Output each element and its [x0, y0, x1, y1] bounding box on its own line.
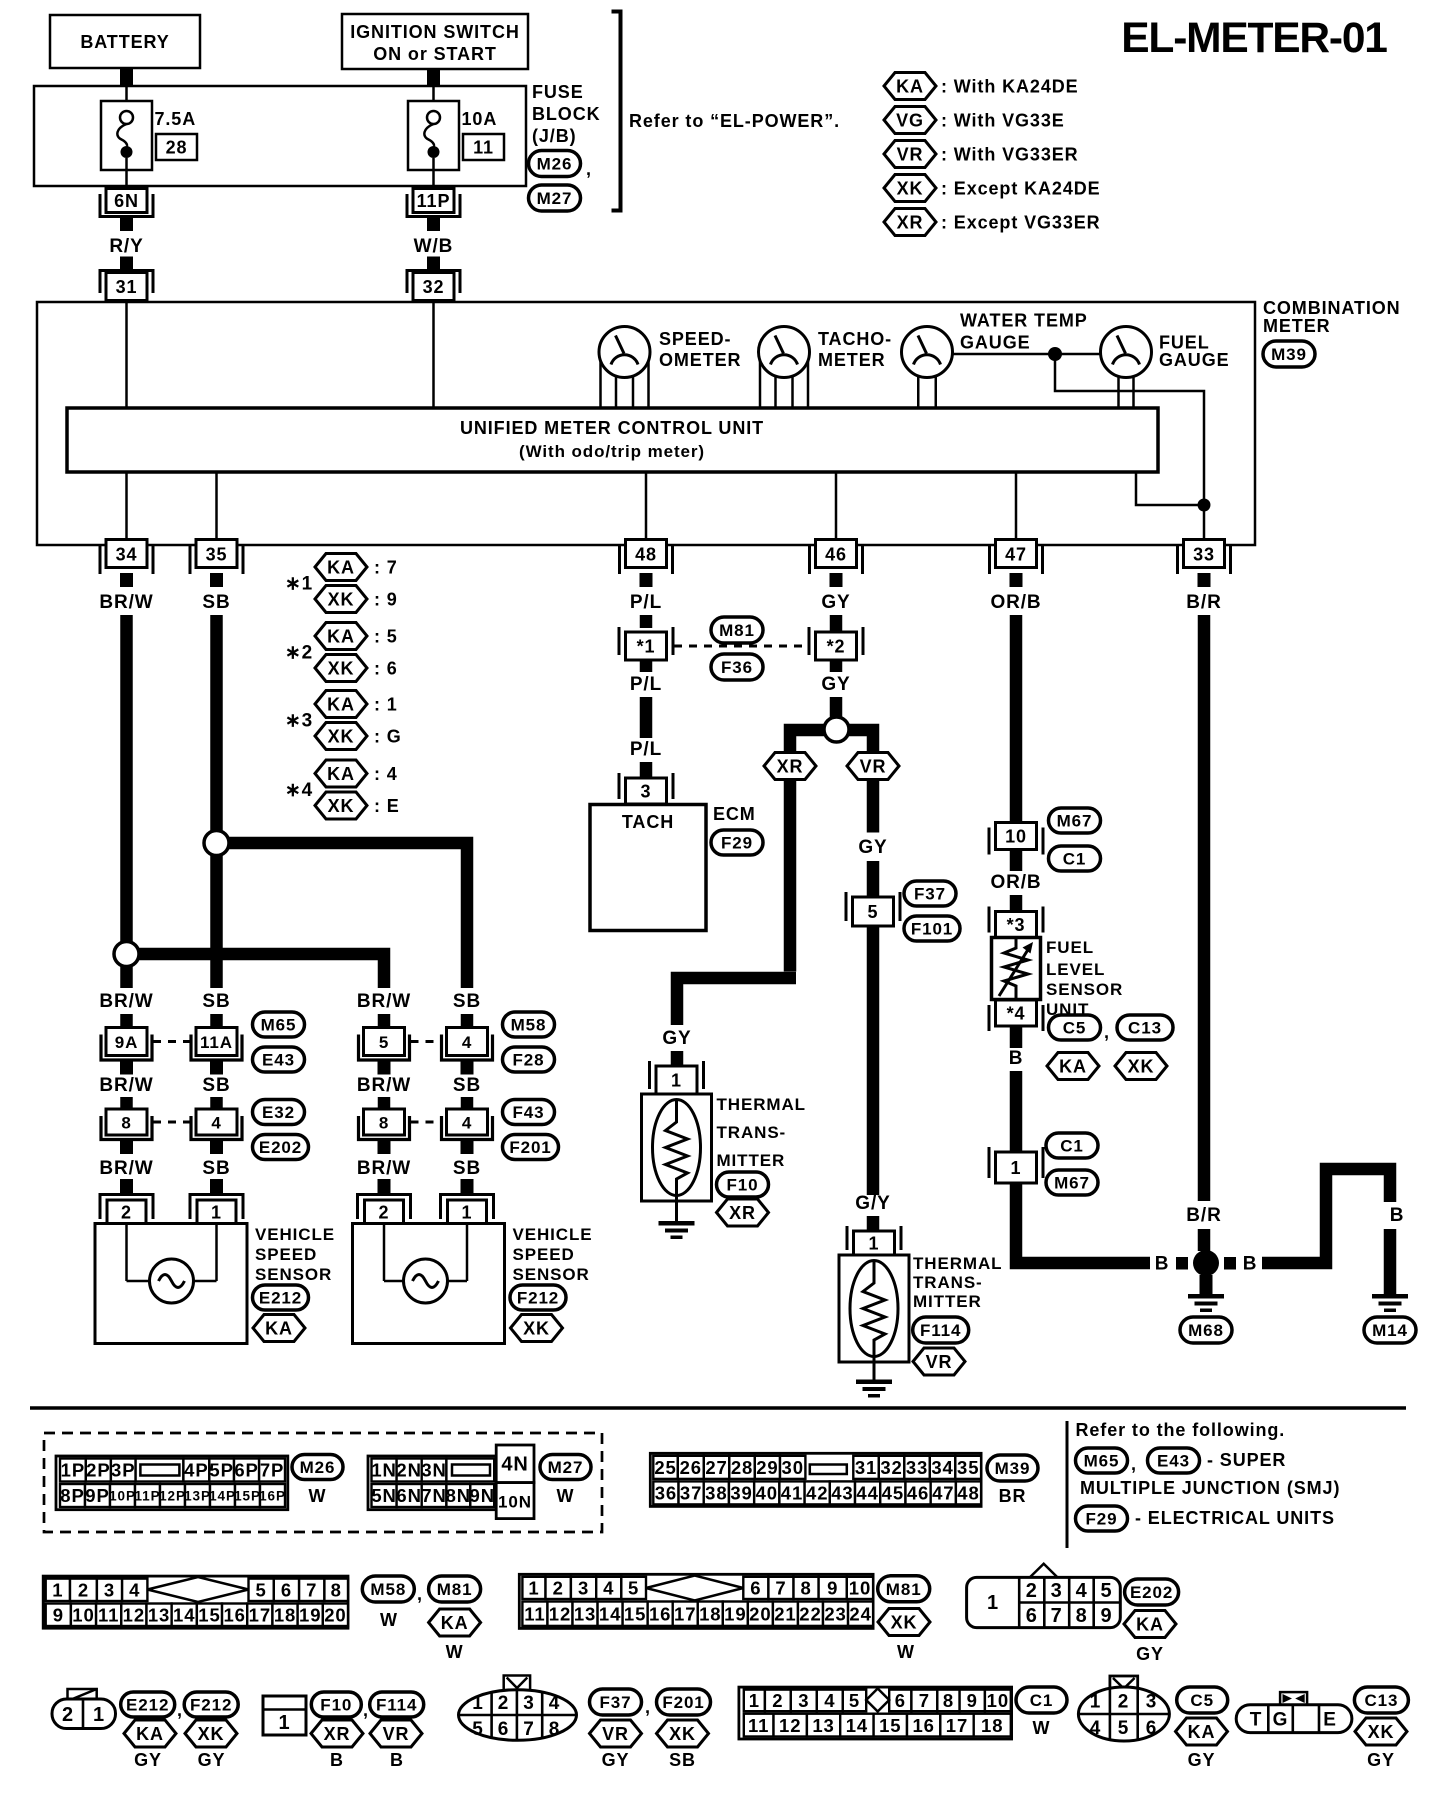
- svg-text:35: 35: [206, 545, 228, 565]
- engine tag XK: [878, 1609, 930, 1636]
- svg-text:MULTIPLE JUNCTION (SMJ): MULTIPLE JUNCTION (SMJ): [1080, 1478, 1340, 1498]
- thermal transmitter F10 body: [642, 1094, 712, 1201]
- junction circle on SB: [204, 831, 229, 856]
- engine tag KA: [1047, 1053, 1099, 1080]
- svg-text:F10: F10: [320, 1696, 352, 1715]
- svg-text:1: 1: [987, 1592, 999, 1614]
- svg-text:30: 30: [782, 1457, 804, 1478]
- connector 48: [620, 540, 673, 588]
- label thermal transmitter F10: [717, 1095, 806, 1170]
- gauge speedometer: [599, 327, 650, 409]
- svg-text:GY: GY: [1136, 1644, 1164, 1664]
- svg-text:*3: *3: [1007, 915, 1026, 935]
- engine tag KA: [1124, 1611, 1176, 1638]
- svg-text:E32: E32: [262, 1103, 295, 1122]
- connector 46: [810, 540, 863, 588]
- svg-text:15: 15: [879, 1715, 901, 1736]
- svg-text:6: 6: [281, 1579, 292, 1600]
- svg-text:W: W: [309, 1486, 327, 1506]
- svg-text:16: 16: [223, 1604, 245, 1625]
- connector pinout 8-pin oval: [459, 1676, 577, 1741]
- svg-text:6: 6: [1146, 1718, 1157, 1739]
- svg-text:KA: KA: [136, 1724, 164, 1744]
- legend *3 tag KA : 1: [315, 691, 398, 718]
- connector 10: [989, 823, 1043, 855]
- svg-text:2: 2: [121, 1203, 132, 1223]
- svg-text:SENSOR: SENSOR: [513, 1265, 590, 1284]
- svg-text:6: 6: [1026, 1605, 1038, 1627]
- connector 35: [190, 540, 243, 588]
- svg-text:47: 47: [1005, 545, 1027, 565]
- svg-text:SB: SB: [669, 1750, 696, 1770]
- connector tag F10: [717, 1172, 769, 1197]
- svg-text:M65: M65: [1084, 1452, 1120, 1471]
- connector 1: [847, 1226, 901, 1255]
- svg-text:B/R: B/R: [1186, 592, 1221, 613]
- wire elbow to ground junction: [1016, 1183, 1150, 1263]
- connector pinout C1 18-pin grid: [739, 1687, 1012, 1739]
- wire: [378, 1014, 391, 1028]
- svg-text:XK: XK: [328, 726, 355, 746]
- connector tag F201: [503, 1135, 559, 1160]
- svg-text:XK: XK: [1128, 1056, 1155, 1076]
- branch SB to right column: [228, 843, 467, 988]
- svg-text:KA: KA: [327, 764, 355, 784]
- connector *2: [809, 627, 863, 660]
- svg-text:7.5A: 7.5A: [155, 109, 197, 129]
- wire: [1010, 1071, 1023, 1152]
- connector tag M65: [1076, 1448, 1128, 1473]
- thermal transmitter F114 body: [839, 1255, 909, 1362]
- svg-text:,: ,: [177, 1700, 183, 1720]
- svg-text:41: 41: [781, 1483, 803, 1504]
- svg-text:33: 33: [1193, 545, 1215, 565]
- svg-text:OR/B: OR/B: [990, 592, 1041, 613]
- svg-text:KA: KA: [327, 557, 355, 577]
- svg-text:1: 1: [472, 1693, 483, 1714]
- unified meter control unit box: [67, 408, 1158, 472]
- svg-text:C13: C13: [1364, 1691, 1398, 1710]
- engine tag XK: [511, 1315, 563, 1342]
- label vehicle speed sensor: [255, 1225, 335, 1284]
- svg-text:W/B: W/B: [414, 236, 454, 257]
- svg-text:15: 15: [624, 1603, 646, 1624]
- svg-text:F37: F37: [600, 1693, 632, 1712]
- junction dot node 33: [1198, 499, 1211, 512]
- svg-text:M27: M27: [537, 189, 573, 208]
- svg-text:28: 28: [166, 138, 188, 158]
- svg-text:4: 4: [462, 1033, 472, 1052]
- note SMJ: [1080, 1450, 1340, 1498]
- svg-text:E212: E212: [126, 1696, 169, 1715]
- connector pinout E202: [967, 1564, 1121, 1628]
- svg-text:1N: 1N: [371, 1460, 396, 1481]
- svg-text:6: 6: [750, 1578, 761, 1599]
- connector tag M67: [1049, 808, 1101, 833]
- svg-text:19: 19: [299, 1604, 321, 1625]
- svg-text:13: 13: [812, 1715, 834, 1736]
- svg-text:18: 18: [981, 1715, 1003, 1736]
- svg-text:7P: 7P: [260, 1460, 284, 1481]
- connector tag C1: [1049, 846, 1101, 871]
- engine tag XR: [764, 753, 816, 780]
- svg-text:VR: VR: [926, 1352, 953, 1372]
- svg-text:M67: M67: [1057, 812, 1093, 831]
- wire BR/W below circle: [120, 967, 133, 989]
- svg-text:2: 2: [62, 1704, 74, 1726]
- svg-text:18: 18: [699, 1603, 721, 1624]
- connector 8: [359, 1109, 410, 1154]
- svg-text:10N: 10N: [498, 1493, 532, 1512]
- wire to M14 ground: [1262, 1169, 1390, 1263]
- svg-text:GY: GY: [821, 592, 850, 613]
- svg-text:G: G: [1273, 1710, 1289, 1731]
- svg-text:: 4: : 4: [374, 764, 398, 784]
- svg-text:21: 21: [774, 1603, 796, 1624]
- engine tag VR: [913, 1348, 965, 1375]
- svg-text:,: ,: [417, 1584, 423, 1604]
- svg-text:2: 2: [772, 1690, 783, 1711]
- connector tag C5: [1049, 1015, 1101, 1040]
- svg-text:15: 15: [198, 1604, 220, 1625]
- wire control unit to meter pin: [835, 472, 838, 541]
- svg-text:XK: XK: [328, 658, 355, 678]
- junction circle GY: [824, 717, 849, 742]
- fuse block label: [532, 82, 601, 146]
- svg-text:5: 5: [1100, 1580, 1112, 1602]
- connector 31: [100, 257, 153, 301]
- fuse block J/B box: [34, 86, 526, 186]
- connector tag F29: [711, 830, 763, 855]
- svg-text:F10: F10: [727, 1176, 759, 1195]
- svg-text:M26: M26: [537, 155, 573, 174]
- svg-text:SB: SB: [453, 1158, 481, 1179]
- svg-text:3: 3: [1146, 1692, 1157, 1713]
- svg-text:*4: *4: [1007, 1003, 1026, 1023]
- svg-text:KA: KA: [1059, 1056, 1087, 1076]
- svg-text:EL-METER-01: EL-METER-01: [1121, 15, 1387, 62]
- connector 47: [990, 540, 1043, 588]
- svg-text:1: 1: [671, 1070, 682, 1090]
- legend *3 tag XK : G: [315, 723, 402, 750]
- engine tag XK: [185, 1720, 237, 1747]
- svg-text:P/L: P/L: [630, 592, 662, 613]
- wire: [1010, 1026, 1023, 1048]
- dashed link 8-4: [153, 1121, 195, 1124]
- connector 9A: [101, 1028, 152, 1075]
- svg-text:W: W: [380, 1610, 398, 1630]
- svg-text:39: 39: [730, 1483, 752, 1504]
- svg-text:GY: GY: [1188, 1750, 1216, 1770]
- svg-text:E212: E212: [259, 1289, 302, 1308]
- svg-text:: With VG33E: : With VG33E: [941, 110, 1065, 130]
- legend *3: [285, 710, 313, 731]
- wire: [210, 1014, 223, 1028]
- connector 8: [101, 1109, 152, 1154]
- svg-text:44: 44: [856, 1483, 878, 1504]
- svg-text:LEVEL: LEVEL: [1046, 960, 1105, 979]
- svg-text:XR: XR: [777, 756, 804, 776]
- svg-text:BR/W: BR/W: [99, 1075, 153, 1096]
- svg-text:UNIFIED METER CONTROL UNIT: UNIFIED METER CONTROL UNIT: [460, 418, 764, 438]
- svg-text:BR/W: BR/W: [357, 1075, 411, 1096]
- wire control unit to meter pin: [215, 472, 218, 541]
- svg-text:F201: F201: [509, 1138, 551, 1157]
- svg-text:E: E: [1323, 1710, 1337, 1731]
- refer divider line: [1066, 1421, 1069, 1548]
- connector 4: [442, 1028, 493, 1075]
- svg-text:C1: C1: [1060, 1137, 1084, 1156]
- svg-text:11: 11: [524, 1603, 545, 1624]
- svg-text:1: 1: [1090, 1692, 1101, 1713]
- svg-text:3: 3: [798, 1690, 809, 1711]
- svg-text:IGNITION SWITCH: IGNITION SWITCH: [350, 22, 520, 42]
- svg-text:13P: 13P: [184, 1488, 211, 1503]
- connector tag C13: [1117, 1015, 1173, 1040]
- connector tag E212: [253, 1285, 309, 1310]
- svg-text:1: 1: [93, 1704, 105, 1726]
- engine tag XR: [717, 1199, 769, 1226]
- wire: [1384, 1229, 1397, 1294]
- wire SB below circle: [210, 856, 223, 989]
- svg-text:23: 23: [824, 1603, 846, 1624]
- svg-text:5: 5: [628, 1578, 639, 1599]
- svg-text:2: 2: [553, 1578, 564, 1599]
- connector tag C5: [1177, 1687, 1228, 1713]
- svg-text:34: 34: [931, 1457, 953, 1478]
- connector 1: [989, 1147, 1043, 1183]
- svg-text:GY: GY: [602, 1750, 630, 1770]
- svg-text:47: 47: [932, 1483, 954, 1504]
- svg-text:29: 29: [756, 1457, 778, 1478]
- svg-text:12: 12: [779, 1715, 801, 1736]
- svg-text:13: 13: [148, 1604, 170, 1625]
- svg-text:R/Y: R/Y: [109, 236, 143, 257]
- svg-text:11: 11: [473, 138, 494, 158]
- wire node to connector 33: [1203, 505, 1206, 541]
- svg-text:W: W: [446, 1642, 464, 1662]
- svg-text:VR: VR: [383, 1724, 410, 1744]
- svg-text:B: B: [1243, 1254, 1258, 1275]
- svg-text:: Except VG33ER: : Except VG33ER: [941, 212, 1101, 232]
- connector 2: [358, 1179, 411, 1224]
- wire: [1198, 1229, 1211, 1251]
- svg-text:3: 3: [578, 1578, 589, 1599]
- bracket for fuse block: [612, 12, 621, 211]
- svg-text:10: 10: [849, 1578, 871, 1599]
- fuel level sensor unit box: [992, 938, 1041, 1000]
- svg-text:GY: GY: [662, 1028, 691, 1049]
- svg-text:SB: SB: [202, 991, 230, 1012]
- connector pinout 20-pin grid: [43, 1576, 348, 1628]
- svg-text:8: 8: [121, 1113, 131, 1132]
- svg-text:4: 4: [211, 1113, 221, 1132]
- svg-text:F43: F43: [513, 1103, 545, 1122]
- wire: [120, 1097, 133, 1110]
- svg-text:9: 9: [967, 1690, 978, 1711]
- svg-text:GY: GY: [134, 1750, 162, 1770]
- svg-text:14P: 14P: [209, 1488, 236, 1503]
- svg-text:: Except KA24DE: : Except KA24DE: [941, 178, 1101, 198]
- svg-text:: 6: : 6: [374, 658, 398, 678]
- wire GY stub: [830, 615, 843, 632]
- svg-text:4N: 4N: [501, 1454, 528, 1476]
- svg-text:,: ,: [586, 159, 592, 179]
- svg-text:VEHICLE: VEHICLE: [513, 1225, 593, 1244]
- svg-text:SB: SB: [453, 991, 481, 1012]
- svg-text:: E: : E: [374, 796, 400, 816]
- wire: [640, 697, 653, 738]
- svg-text:W: W: [1033, 1718, 1051, 1738]
- svg-text:M26: M26: [300, 1458, 336, 1477]
- svg-text:F114: F114: [376, 1696, 417, 1715]
- ground M68: [1188, 1294, 1224, 1312]
- svg-text:(With odo/trip meter): (With odo/trip meter): [519, 442, 705, 461]
- connector 4: [191, 1109, 242, 1154]
- svg-text:,: ,: [1131, 1454, 1137, 1474]
- svg-text:4: 4: [603, 1578, 614, 1599]
- svg-text:19: 19: [724, 1603, 746, 1624]
- connector tag M26: [529, 151, 581, 177]
- svg-text:8N: 8N: [446, 1485, 471, 1506]
- svg-text:7N: 7N: [421, 1485, 446, 1506]
- connector pinout 1-box: [263, 1696, 306, 1735]
- connector 5: [846, 892, 900, 926]
- svg-text:35: 35: [957, 1457, 979, 1478]
- ground F114: [856, 1380, 892, 1398]
- svg-text:1: 1: [278, 1712, 290, 1734]
- svg-text:37: 37: [680, 1483, 702, 1504]
- connector 32: [407, 257, 460, 301]
- svg-text:SENSOR: SENSOR: [255, 1265, 332, 1284]
- svg-text:9: 9: [53, 1604, 64, 1625]
- wire OR/B: [1010, 615, 1023, 823]
- svg-text:36: 36: [655, 1483, 677, 1504]
- svg-text:5: 5: [256, 1579, 267, 1600]
- svg-text:F28: F28: [513, 1051, 545, 1070]
- svg-text:M67: M67: [1054, 1174, 1090, 1193]
- svg-text:E43: E43: [262, 1051, 295, 1070]
- connector tag F114: [370, 1692, 424, 1717]
- svg-text:12: 12: [123, 1604, 145, 1625]
- svg-text:1P: 1P: [61, 1460, 85, 1481]
- svg-text:SB: SB: [202, 1075, 230, 1096]
- svg-text:48: 48: [635, 545, 657, 565]
- svg-text:2N: 2N: [396, 1460, 421, 1481]
- connector tag F10: [311, 1692, 361, 1717]
- svg-text:BR/W: BR/W: [357, 1158, 411, 1179]
- wire 32 to control unit: [432, 302, 435, 408]
- svg-text:XR: XR: [324, 1724, 351, 1744]
- svg-text:7: 7: [523, 1719, 534, 1740]
- svg-text:6N: 6N: [114, 191, 139, 211]
- connector tag M81: [711, 617, 763, 643]
- svg-text:31: 31: [116, 277, 138, 297]
- connector pinout C5 oval: [1078, 1676, 1169, 1741]
- wire water temp to fuel gauge: [953, 353, 1101, 356]
- connector 2: [100, 1179, 153, 1224]
- combination meter box: [37, 302, 1255, 545]
- fuse 10A no.11: [408, 86, 459, 186]
- svg-text:40: 40: [756, 1483, 778, 1504]
- svg-text:B/R: B/R: [1186, 1205, 1221, 1226]
- svg-text:10P: 10P: [109, 1488, 136, 1503]
- svg-text:42: 42: [806, 1483, 828, 1504]
- svg-text:9: 9: [1100, 1605, 1112, 1627]
- separator line: [30, 1406, 1406, 1410]
- engine tag KA: [429, 1609, 481, 1636]
- svg-text:28: 28: [731, 1457, 753, 1478]
- svg-text:8: 8: [800, 1578, 811, 1599]
- svg-text:8P: 8P: [60, 1485, 84, 1506]
- svg-text:7: 7: [1051, 1605, 1063, 1627]
- connector tag M27: [540, 1455, 591, 1480]
- engine tag KA: [253, 1315, 305, 1342]
- engine tag XK: [1115, 1053, 1167, 1080]
- legend tag VR: [884, 141, 936, 168]
- connector tag M58: [362, 1576, 414, 1602]
- svg-text:ECM: ECM: [713, 804, 756, 824]
- svg-text:4P: 4P: [184, 1460, 208, 1481]
- svg-text:W: W: [557, 1486, 575, 1506]
- svg-text:KA: KA: [327, 694, 355, 714]
- svg-text:1: 1: [1011, 1158, 1022, 1178]
- svg-text:6: 6: [895, 1690, 906, 1711]
- svg-text:WATER TEMP: WATER TEMP: [960, 311, 1088, 331]
- svg-text:M58: M58: [370, 1580, 406, 1599]
- svg-text:F212: F212: [517, 1289, 559, 1308]
- svg-text:M81: M81: [719, 621, 755, 640]
- connector tag M67: [1046, 1170, 1098, 1195]
- svg-text:8: 8: [379, 1113, 389, 1132]
- legend *1 tag XK : 9: [315, 586, 398, 613]
- svg-text:THERMAL: THERMAL: [913, 1254, 1002, 1273]
- svg-text:C5: C5: [1190, 1691, 1214, 1710]
- connector tag F114: [913, 1317, 969, 1343]
- wire ignition to fuse block: [427, 69, 440, 87]
- connector pinout M39 grid: [650, 1453, 981, 1506]
- connector 5: [359, 1028, 410, 1075]
- connector tag E202: [1125, 1579, 1179, 1605]
- wire P/L stub: [640, 615, 653, 628]
- engine tag KA: [1176, 1718, 1228, 1745]
- svg-text:7: 7: [775, 1578, 786, 1599]
- fuse 7.5A no.28: [101, 86, 152, 186]
- svg-text:*2: *2: [827, 636, 846, 656]
- engine tag VR: [847, 753, 899, 780]
- svg-text:,: ,: [645, 1697, 651, 1717]
- wire B/R: [1198, 615, 1211, 1201]
- svg-text:32: 32: [880, 1457, 902, 1478]
- wire: [640, 660, 653, 672]
- svg-text:5P: 5P: [209, 1460, 233, 1481]
- svg-text:M68: M68: [1188, 1321, 1224, 1340]
- svg-text:48: 48: [957, 1483, 979, 1504]
- svg-text:20: 20: [749, 1603, 771, 1624]
- svg-text:32: 32: [423, 277, 445, 297]
- legend *4: [285, 780, 313, 801]
- svg-text:4: 4: [1076, 1580, 1088, 1602]
- wire control unit to meter pin: [1015, 472, 1018, 541]
- svg-text:8: 8: [331, 1579, 342, 1600]
- svg-text:VR: VR: [602, 1724, 629, 1744]
- svg-text:17: 17: [946, 1715, 968, 1736]
- connector tag M58: [503, 1012, 555, 1037]
- svg-text:P/L: P/L: [630, 739, 662, 760]
- label fuel level sensor unit: [1046, 938, 1123, 1019]
- svg-text:16: 16: [649, 1603, 671, 1624]
- svg-text:VEHICLE: VEHICLE: [255, 1225, 335, 1244]
